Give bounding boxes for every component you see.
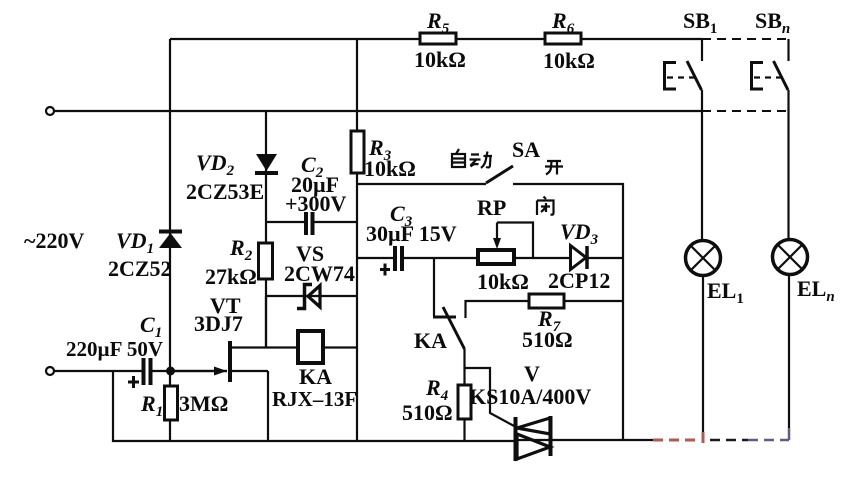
svg-text:3MΩ: 3MΩ xyxy=(179,391,228,416)
svg-text:10kΩ: 10kΩ xyxy=(364,156,416,181)
diode VD2 xyxy=(255,154,278,173)
resistor R2 xyxy=(259,243,273,279)
wire lower terminal lead xyxy=(54,370,142,372)
relay coil KA xyxy=(298,331,357,363)
wire second horizontal (mains line) xyxy=(54,110,702,112)
svg-text:10kΩ: 10kΩ xyxy=(543,48,595,73)
wire triac gate branch xyxy=(465,368,517,427)
switch SA blade xyxy=(486,166,513,183)
svg-text:KA: KA xyxy=(299,364,332,389)
wire bottom dashed blue segment xyxy=(748,439,789,442)
svg-text:220µF 50V: 220µF 50V xyxy=(66,337,163,361)
lamp ELn xyxy=(773,240,808,441)
relay contact KA xyxy=(433,258,465,368)
lamp EL1 xyxy=(686,241,721,444)
wire SA to right rail xyxy=(513,184,623,441)
zener diode VS xyxy=(266,285,357,309)
svg-text:+300V: +300V xyxy=(285,191,347,216)
label kai (Chinese: open) xyxy=(545,161,563,175)
svg-text:~220V: ~220V xyxy=(24,228,84,253)
diode VD3 xyxy=(571,246,624,270)
node A junction dot xyxy=(166,367,175,376)
svg-text:10kΩ: 10kΩ xyxy=(414,47,466,72)
resistor R1 xyxy=(165,386,178,420)
label zidong (Chinese: auto) xyxy=(452,149,492,168)
svg-text:3DJ7: 3DJ7 xyxy=(194,311,243,336)
wire top horizontal xyxy=(170,38,702,40)
svg-text:V: V xyxy=(524,361,540,386)
resistor R7 xyxy=(529,294,564,308)
capacitor C1 xyxy=(128,358,227,388)
wire common rail x357 xyxy=(356,39,358,441)
svg-text:KA: KA xyxy=(414,328,447,353)
svg-text:2CZ52: 2CZ52 xyxy=(108,256,172,281)
capacitor C3 xyxy=(357,246,478,276)
wire bottom rail xyxy=(113,371,514,441)
diode VD1 xyxy=(159,232,182,249)
resistor R4 xyxy=(458,368,471,441)
svg-text:RP: RP xyxy=(477,195,506,220)
wire bottom dashed dark segment xyxy=(710,439,748,442)
potentiometer RP xyxy=(478,223,570,265)
resistor R5 xyxy=(420,33,456,44)
transistor VT (3DJ7) xyxy=(171,296,297,441)
svg-text:27kΩ: 27kΩ xyxy=(205,264,257,289)
wire second dashed to SBn xyxy=(702,110,788,112)
svg-text:2CP12: 2CP12 xyxy=(548,268,610,293)
pushbutton SB1 xyxy=(665,39,703,240)
svg-text:30µF 15V: 30µF 15V xyxy=(366,221,457,246)
svg-text:2CW74: 2CW74 xyxy=(284,261,355,286)
svg-text:SA: SA xyxy=(512,137,540,162)
capacitor C2 xyxy=(266,212,357,235)
wire bottom dashed red segment xyxy=(653,439,701,442)
label bi (Chinese: closed) xyxy=(537,197,554,216)
resistor R6 xyxy=(545,33,581,44)
wire bottom rail right of triac xyxy=(552,439,653,441)
wire R7 branch xyxy=(466,301,624,318)
svg-text:510Ω: 510Ω xyxy=(402,400,453,425)
svg-text:RJX–13F: RJX–13F xyxy=(272,387,357,411)
svg-text:10kΩ: 10kΩ xyxy=(477,269,529,294)
wire middle rail x266 (VD2/R2 branch) xyxy=(265,111,267,347)
terminal upper left xyxy=(46,107,54,115)
wire left rail x170 xyxy=(169,39,171,441)
svg-text:2CZ53E: 2CZ53E xyxy=(186,179,264,204)
svg-text:510Ω: 510Ω xyxy=(522,327,573,352)
wire top dashed to SBn xyxy=(702,38,789,40)
pushbutton SBn xyxy=(752,39,789,238)
svg-text:KS10A/400V: KS10A/400V xyxy=(469,384,591,409)
terminal lower left xyxy=(46,367,54,375)
triac V xyxy=(514,416,552,461)
wire SA feed xyxy=(357,183,486,185)
resistor R3 xyxy=(351,131,364,173)
